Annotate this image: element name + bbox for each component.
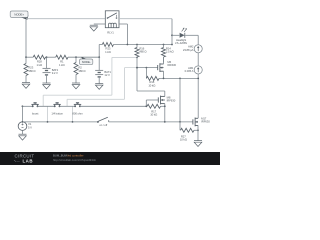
node: [75, 56, 77, 58]
node: [179, 121, 181, 123]
label BAT2: [52, 68, 59, 75]
svg-text:on / off: on / off: [99, 123, 107, 127]
wire: [26, 18, 105, 20]
wire: [67, 98, 124, 100]
wire: [43, 94, 112, 96]
switch on/off: [97, 117, 109, 123]
svg-text:NODE-: NODE-: [82, 60, 91, 64]
wire: [46, 57, 48, 68]
wire: [112, 56, 137, 58]
node: [146, 67, 148, 69]
ground: [19, 134, 27, 140]
wire: [119, 18, 172, 20]
node: [145, 105, 147, 107]
ground: [90, 25, 98, 31]
wire: [75, 75, 77, 84]
label Headlight: [175, 38, 187, 45]
wire: [179, 78, 181, 122]
svg-text:1 kΩ: 1 kΩ: [105, 50, 110, 54]
wire: [197, 35, 199, 44]
wire: [98, 45, 100, 58]
ground: [22, 83, 30, 89]
svg-text:23.88 µA: 23.88 µA: [183, 48, 194, 52]
wire: [22, 105, 32, 107]
wire: [119, 23, 127, 25]
svg-text:480 Ω: 480 Ω: [28, 69, 35, 73]
svg-text:boost: boost: [32, 111, 39, 115]
node: [136, 57, 138, 59]
wire: [172, 34, 179, 36]
ammeter AM2: [194, 45, 202, 53]
svg-text:http:​//circuitlab.com/c/47xpw: http:​//circuitlab.com/c/47xpwd33nb: [53, 158, 96, 162]
svg-text:10 kΩ: 10 kΩ: [150, 113, 157, 117]
voltage source V1: [18, 122, 27, 131]
resistor R18: [146, 76, 159, 80]
node: [136, 67, 138, 69]
label V1: [28, 122, 32, 129]
wire: [136, 45, 138, 48]
node: [25, 56, 27, 58]
resistor R1: [56, 55, 68, 59]
node: [136, 67, 138, 69]
resistor R27: [181, 128, 195, 132]
ground: [194, 141, 202, 147]
ground: [72, 83, 80, 89]
svg-text:10 kΩ: 10 kΩ: [180, 138, 187, 142]
LED Headlight: [180, 28, 187, 38]
svg-text:480 Ω: 480 Ω: [139, 50, 146, 54]
label BAT1: [104, 70, 111, 77]
label 1/4 button: [51, 111, 63, 115]
battery BAT2: [43, 68, 51, 75]
wire: [197, 74, 199, 118]
switch 800 ohm: [74, 102, 81, 107]
svg-text:12 V: 12 V: [104, 73, 110, 77]
svg-text:∿—: ∿—: [14, 159, 21, 163]
node: [163, 78, 165, 80]
node: [197, 78, 199, 80]
wire: [25, 57, 27, 63]
wire: [60, 105, 76, 107]
node: [72, 121, 74, 123]
node flag NODE+: [10, 11, 28, 20]
wire: [145, 100, 147, 106]
label R23: [28, 66, 35, 73]
footer bar: [0, 152, 220, 165]
svg-text:IRF630: IRF630: [201, 120, 210, 124]
transistor M6: [158, 63, 164, 72]
wire: [111, 57, 113, 95]
resistor R17: [147, 104, 161, 108]
svg-text:2.5 kΩ: 2.5 kΩ: [166, 50, 174, 54]
node: [164, 105, 166, 107]
resistor R16: [135, 48, 139, 58]
label R16: [139, 46, 146, 53]
node: [127, 44, 129, 46]
wire: [68, 56, 99, 58]
wire: [114, 44, 173, 46]
label AM1: [185, 66, 194, 73]
wire: [197, 125, 199, 140]
wire: [46, 56, 56, 58]
wire: [163, 57, 165, 64]
node: [197, 129, 199, 131]
label R13: [105, 47, 111, 54]
resistor R2: [74, 63, 78, 75]
wire: [94, 23, 106, 25]
wire: [42, 95, 44, 106]
label R14: [166, 46, 174, 53]
wire: [38, 105, 55, 107]
svg-text:800 ohm: 800 ohm: [72, 111, 83, 115]
wire: [137, 67, 158, 69]
svg-text:IRF630: IRF630: [167, 99, 176, 103]
ammeter AM1: [194, 66, 202, 74]
label M6: [167, 60, 176, 67]
wire: [46, 75, 48, 83]
node: [136, 44, 138, 46]
wire: [159, 77, 198, 79]
wire: [171, 19, 173, 45]
label M8: [167, 95, 176, 102]
switch boost: [31, 102, 38, 107]
wire: [22, 130, 24, 134]
wire: [126, 24, 128, 45]
resistor R28: [33, 55, 45, 59]
wire: [25, 19, 27, 58]
wire: [161, 105, 165, 107]
wire: [26, 56, 33, 58]
wire: [98, 77, 100, 84]
wire: [163, 45, 165, 48]
wire: [75, 57, 77, 62]
resistor R13: [102, 43, 113, 47]
wire: [163, 57, 165, 62]
svg-text:1/4 button: 1/4 button: [51, 111, 63, 115]
wire: [194, 129, 198, 131]
wire: [179, 122, 181, 130]
wire: [164, 104, 166, 122]
svg-text:0.005 A: 0.005 A: [185, 69, 194, 73]
svg-text:NODE+: NODE+: [14, 12, 24, 16]
ground: [43, 83, 51, 89]
label AM2: [183, 45, 194, 52]
wire: [25, 76, 27, 83]
wire: [125, 67, 138, 69]
label boost: [32, 111, 39, 115]
wire: [146, 99, 158, 101]
svg-text:5 V: 5 V: [28, 126, 32, 130]
label R2: [78, 66, 85, 73]
node: [171, 44, 173, 46]
transistor M8: [158, 96, 165, 105]
label RLY1: [107, 31, 114, 35]
label R18: [148, 80, 155, 87]
label R1: [59, 60, 64, 67]
wire: [124, 68, 126, 100]
ground: [95, 84, 103, 90]
wire: [80, 105, 146, 107]
wire: [21, 106, 23, 122]
resistor R14: [162, 48, 166, 58]
svg-text:380 Ω: 380 Ω: [78, 69, 85, 73]
svg-text:10 kΩ: 10 kΩ: [148, 83, 155, 87]
node: [47, 121, 49, 123]
label 800 ohm: [72, 111, 83, 115]
wire: [47, 106, 49, 122]
wire: [98, 57, 100, 70]
svg-text:LTL-4266N: LTL-4266N: [175, 41, 187, 45]
node: [22, 121, 24, 123]
label M17: [201, 116, 210, 123]
transistor M17: [193, 118, 198, 127]
wire: [163, 71, 165, 78]
wire: [185, 34, 198, 36]
node flag NODE-: [80, 57, 93, 65]
label R28: [37, 60, 43, 67]
relay RLY1: [105, 11, 119, 28]
battery BAT1: [95, 70, 103, 77]
wire: [136, 57, 138, 91]
wire: [72, 106, 74, 122]
label R17: [150, 109, 157, 116]
svg-text:1 kΩ: 1 kΩ: [37, 63, 42, 67]
node: [163, 44, 165, 46]
label R27: [180, 134, 187, 141]
svg-text:IRF630: IRF630: [167, 63, 176, 67]
wire: [66, 99, 68, 106]
switch 1/4 button: [53, 102, 60, 107]
node: [171, 34, 173, 36]
node: [179, 78, 181, 80]
svg-text:LAB: LAB: [23, 158, 34, 163]
node: [22, 105, 24, 107]
node: [98, 56, 100, 58]
wire: [137, 90, 165, 92]
wire: [23, 121, 98, 123]
wire: [99, 44, 102, 46]
wire: [145, 68, 147, 79]
resistor R23: [24, 64, 28, 76]
svg-text:RLY1: RLY1: [107, 31, 114, 35]
wire: [164, 91, 166, 96]
node: [46, 56, 48, 58]
wire: [197, 53, 199, 66]
label on/off: [99, 123, 107, 127]
svg-text:9.2 V: 9.2 V: [52, 71, 58, 75]
node: [164, 121, 166, 123]
svg-text:1 kΩ: 1 kΩ: [59, 63, 64, 67]
wire: [109, 121, 193, 123]
